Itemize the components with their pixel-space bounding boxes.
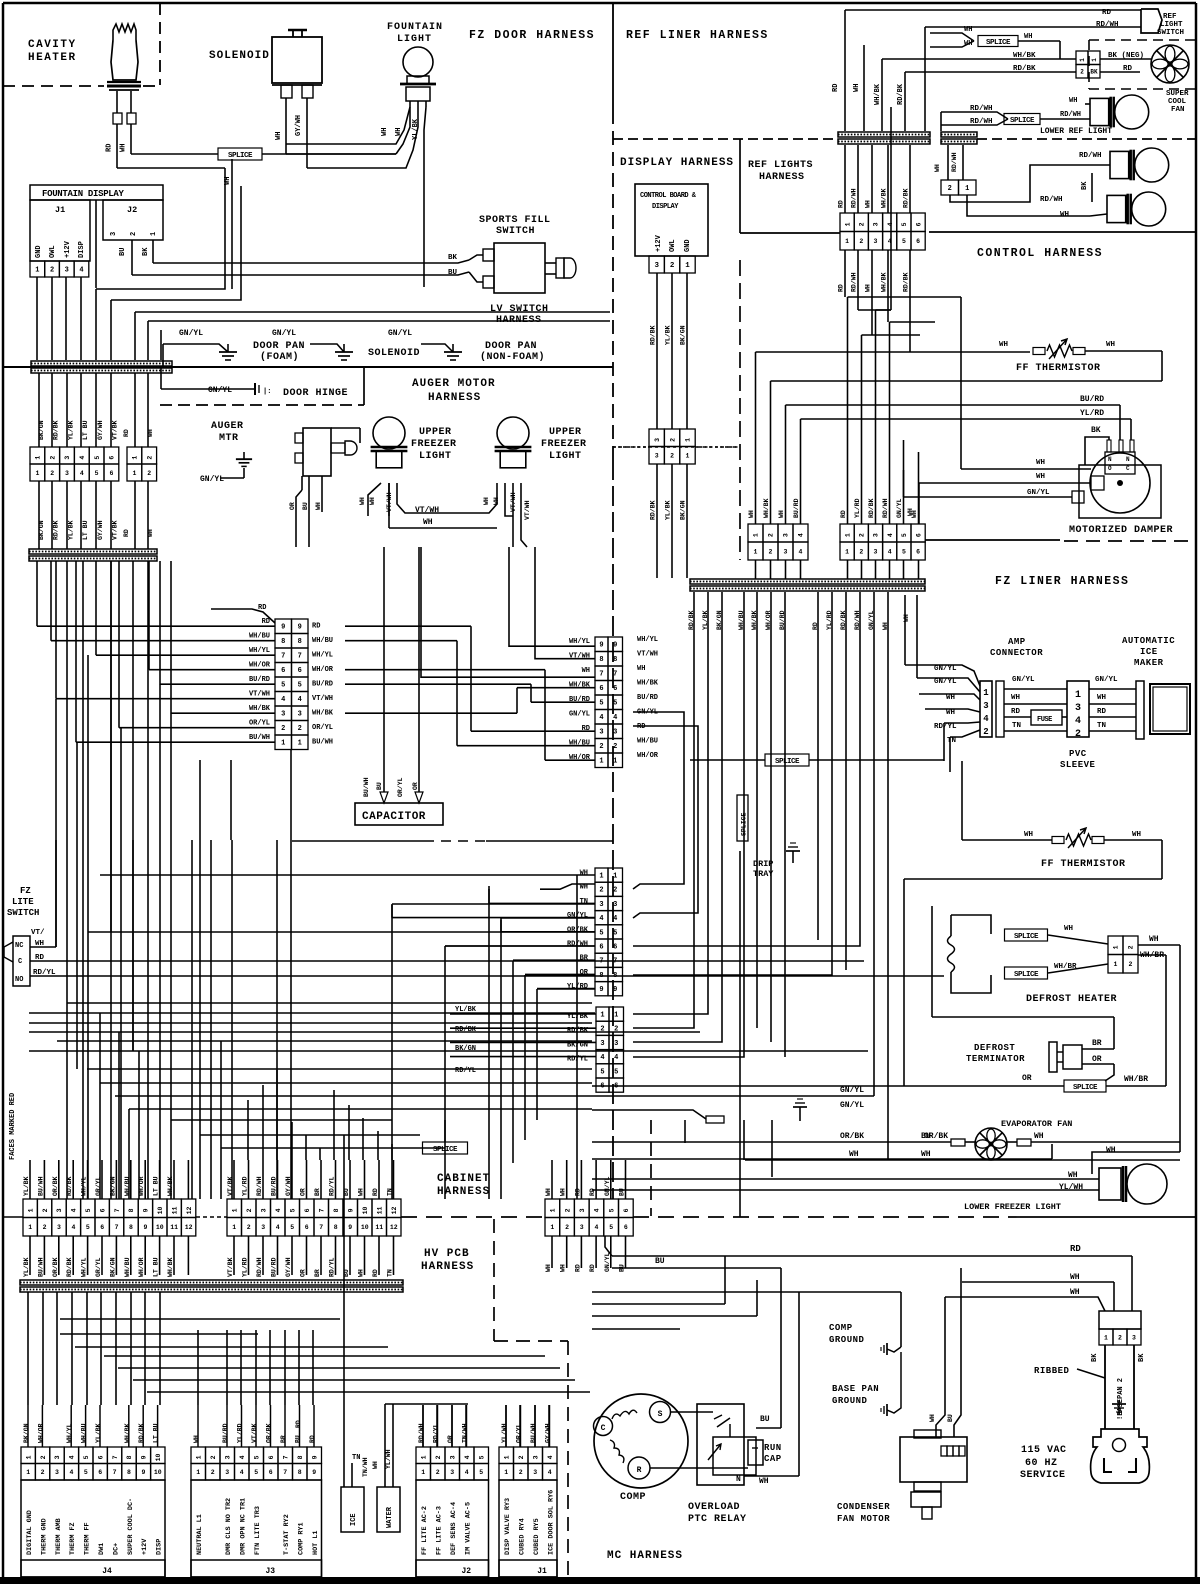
svg-text:5: 5 — [84, 1469, 88, 1476]
svg-text:WH/BK: WH/BK — [881, 272, 888, 292]
svg-text:OVERLOAD: OVERLOAD — [688, 1502, 740, 1513]
wires into amp connector left — [905, 665, 980, 686]
svg-text:N: N — [1126, 456, 1130, 463]
svg-text:2: 2 — [42, 1208, 49, 1212]
hv pcb mesh wires — [27, 1292, 29, 1405]
svg-text:OR: OR — [1022, 1074, 1032, 1083]
svg-text:OR/YL: OR/YL — [397, 777, 404, 797]
svg-text:S: S — [658, 1410, 663, 1419]
svg-text:THERM FF: THERM FF — [84, 1522, 92, 1555]
svg-text:5: 5 — [478, 1455, 485, 1459]
svg-text:5: 5 — [254, 1469, 258, 1476]
svg-text:1: 1 — [965, 185, 969, 193]
fountain light bulb — [403, 47, 433, 77]
svg-text:10: 10 — [155, 1453, 162, 1461]
svg-text:SPLICE: SPLICE — [741, 812, 748, 836]
svg-text:4: 4 — [599, 714, 603, 722]
svg-text:4: 4 — [599, 915, 603, 923]
connector C6 6pin single — [596, 1007, 609, 1021]
bar D verticals extension — [756, 900, 758, 1028]
svg-text:WH: WH — [929, 1414, 936, 1422]
svg-text:WH/BK: WH/BK — [249, 705, 271, 713]
wires to sports fill switch — [469, 255, 483, 260]
svg-text:WH: WH — [853, 84, 861, 92]
svg-text:RD/WH: RD/WH — [851, 272, 858, 292]
svg-text:BK/GN: BK/GN — [109, 1176, 116, 1196]
svg-text:FZ DOOR HARNESS: FZ DOOR HARNESS — [469, 29, 595, 42]
svg-text:4: 4 — [798, 533, 805, 537]
svg-text:8: 8 — [127, 1469, 131, 1476]
svg-text:BU/RD: BU/RD — [637, 694, 658, 702]
fz door harness bus bar A — [31, 361, 172, 366]
svg-text:3: 3 — [281, 711, 285, 719]
svg-text:GY/WH: GY/WH — [285, 1257, 292, 1277]
svg-text:BU/WH: BU/WH — [312, 739, 333, 747]
svg-text:LIGHT: LIGHT — [419, 451, 452, 462]
svg-text:2: 2 — [519, 1469, 523, 1476]
svg-text:2: 2 — [859, 238, 863, 245]
svg-text:WH/BU: WH/BU — [312, 637, 333, 645]
svg-text:4: 4 — [276, 1224, 280, 1231]
svg-text:SPORTS FILL: SPORTS FILL — [479, 215, 551, 226]
svg-text:1: 1 — [504, 1469, 508, 1476]
svg-text:RD: RD — [1070, 1244, 1081, 1254]
svg-text:RD/YL: RD/YL — [329, 1176, 336, 1196]
svg-text:SPLICE: SPLICE — [775, 758, 800, 766]
upper freezer light 2 — [497, 417, 529, 449]
svg-text:5: 5 — [901, 533, 908, 537]
svg-text:4: 4 — [79, 266, 83, 274]
defrost terminator — [1049, 1042, 1057, 1072]
svg-text:BK: BK — [1138, 1353, 1146, 1362]
svg-text:4: 4 — [594, 1208, 601, 1212]
svg-text:4: 4 — [79, 456, 86, 460]
connector C10 control 6pin — [840, 213, 854, 232]
svg-text:1: 1 — [685, 262, 690, 270]
svg-text:BR: BR — [580, 955, 589, 963]
svg-text:11: 11 — [376, 1206, 383, 1214]
svg-text:SPLICE: SPLICE — [228, 152, 253, 160]
svg-text:1: 1 — [844, 222, 851, 226]
svg-text:2: 2 — [43, 1224, 47, 1231]
extra mesh horizontals lower — [171, 1119, 392, 1121]
svg-text:RD/WH: RD/WH — [1060, 111, 1081, 119]
svg-text:2: 2 — [210, 1455, 217, 1459]
svg-text:OR/YL: OR/YL — [312, 724, 333, 732]
svg-text:RD/BK: RD/BK — [66, 1257, 73, 1277]
svg-text:ICE: ICE — [350, 1513, 358, 1526]
svg-text:WH: WH — [1070, 1288, 1080, 1297]
wires below C10 — [844, 250, 846, 297]
svg-text:VT/WH: VT/WH — [637, 651, 658, 659]
svg-text:DISPLAY: DISPLAY — [652, 203, 679, 211]
svg-text:RD: RD — [840, 510, 847, 518]
svg-text:RD/WH: RD/WH — [851, 188, 858, 208]
svg-text:6: 6 — [304, 1208, 311, 1212]
svg-text:1: 1 — [503, 1455, 510, 1459]
svg-text:6: 6 — [916, 548, 920, 555]
svg-text:11: 11 — [170, 1224, 178, 1231]
svg-text:WH: WH — [946, 694, 955, 702]
svg-text:3: 3 — [613, 901, 617, 909]
svg-text:UPPER: UPPER — [419, 427, 452, 438]
svg-text:NO: NO — [15, 976, 23, 984]
svg-text:GN/YL: GN/YL — [604, 1176, 611, 1196]
svg-text:SPLICE: SPLICE — [1073, 1084, 1098, 1092]
horizontal runs to right components — [756, 351, 1031, 353]
svg-text:OR/BK: OR/BK — [266, 1423, 273, 1443]
C17 wires below to bar E — [29, 1236, 31, 1275]
svg-text:TN: TN — [1097, 722, 1106, 730]
svg-text:WH: WH — [1132, 831, 1141, 839]
connector C9 6pin — [840, 524, 854, 542]
display harness divider — [613, 446, 737, 448]
svg-text:3: 3 — [54, 1455, 61, 1459]
svg-text:BU/WH: BU/WH — [363, 777, 370, 797]
svg-text:BU: BU — [119, 248, 127, 256]
svg-text:10: 10 — [154, 1469, 162, 1476]
splice S1 — [218, 148, 262, 160]
bk wire bulbs — [1091, 173, 1093, 202]
svg-text:O: O — [1108, 465, 1112, 472]
svg-text:9: 9 — [599, 986, 603, 994]
svg-text:2: 2 — [983, 727, 988, 737]
svg-text:RD: RD — [574, 1188, 581, 1196]
svg-text:5: 5 — [600, 1068, 604, 1076]
C19 wires below — [551, 1236, 553, 1268]
svg-text:8: 8 — [126, 1455, 133, 1459]
svg-text:WH/BK: WH/BK — [167, 1176, 174, 1196]
svg-text:WH/BU: WH/BU — [124, 1176, 131, 1196]
svg-text:5: 5 — [614, 1068, 618, 1076]
svg-text:2: 2 — [40, 1455, 47, 1459]
svg-text:OWL: OWL — [49, 245, 57, 258]
svg-text:5: 5 — [613, 700, 617, 708]
svg-text:WH/YL: WH/YL — [312, 652, 333, 660]
svg-text:WH: WH — [921, 1150, 931, 1159]
svg-text:FOUNTAIN DISPLAY: FOUNTAIN DISPLAY — [42, 189, 125, 199]
evap fan wires — [592, 1141, 951, 1143]
svg-text:7: 7 — [298, 653, 302, 661]
svg-text:6: 6 — [281, 667, 285, 675]
svg-text:3: 3 — [65, 266, 69, 274]
compressor wires — [670, 1411, 713, 1413]
wire J2-1 BK right — [153, 260, 469, 263]
connector C7 display harness 3pin — [649, 429, 664, 447]
svg-text:OR: OR — [300, 1269, 307, 1277]
svg-text:BU/RD: BU/RD — [312, 681, 333, 689]
svg-text:FAN MOTOR: FAN MOTOR — [837, 1514, 890, 1524]
svg-text:115 VAC: 115 VAC — [1021, 1445, 1067, 1456]
svg-text:4: 4 — [275, 1208, 282, 1212]
splice labels right mesh — [739, 851, 741, 1217]
svg-text:WH: WH — [147, 429, 154, 437]
svg-text:WH: WH — [1106, 341, 1115, 349]
svg-text:EVAPORATOR FAN: EVAPORATOR FAN — [1001, 1119, 1072, 1129]
svg-text:BU: BU — [376, 782, 383, 790]
svg-text:4: 4 — [69, 1455, 76, 1459]
J2 J1 wires verticals — [422, 1405, 424, 1447]
C18 wires above — [233, 1160, 235, 1199]
svg-text:4: 4 — [71, 1208, 78, 1212]
svg-text:6: 6 — [916, 238, 920, 245]
bk wire damper — [1085, 437, 1109, 465]
svg-text:LITE: LITE — [12, 897, 34, 907]
svg-text:GN/YL: GN/YL — [604, 1252, 611, 1272]
svg-text:DEFROST: DEFROST — [974, 1043, 1015, 1053]
svg-text:1: 1 — [614, 1012, 618, 1020]
connector C8 4pin — [748, 524, 763, 542]
svg-text:GN/YL: GN/YL — [1095, 676, 1118, 684]
wires above bus bar A — [95, 289, 97, 360]
svg-text:3: 3 — [654, 438, 661, 442]
svg-text:RD/WH: RD/WH — [951, 152, 958, 172]
svg-text:6: 6 — [915, 222, 922, 226]
svg-text:TERMINATOR: TERMINATOR — [966, 1054, 1025, 1064]
connector J4 block — [21, 1480, 165, 1577]
svg-text:WH: WH — [193, 1435, 200, 1443]
svg-text:BK: BK — [1091, 1353, 1099, 1362]
svg-text:!BASEPAN 2: !BASEPAN 2 — [1117, 1378, 1125, 1420]
svg-text:4: 4 — [465, 1469, 469, 1476]
svg-text:CAVITY: CAVITY — [28, 39, 77, 51]
svg-text:7: 7 — [599, 958, 603, 966]
svg-text:BU/WH: BU/WH — [530, 1423, 537, 1443]
svg-text:3: 3 — [1132, 1334, 1136, 1341]
water wire corner — [392, 1404, 394, 1447]
svg-text:FAN: FAN — [1171, 106, 1185, 114]
svg-text:WH: WH — [778, 510, 785, 518]
svg-text:BU: BU — [448, 269, 458, 277]
svg-text:WH: WH — [999, 341, 1008, 349]
svg-text:LT BU: LT BU — [82, 420, 89, 440]
svg-text:1: 1 — [196, 1469, 200, 1476]
svg-text:3: 3 — [873, 222, 880, 226]
svg-text:BU: BU — [295, 1435, 302, 1443]
ref liner harness divider — [613, 138, 838, 140]
svg-text:BK/GN: BK/GN — [23, 1423, 30, 1443]
svg-text:SERVICE: SERVICE — [1020, 1470, 1066, 1481]
svg-text:TRAY: TRAY — [753, 869, 774, 879]
svg-text:PTC RELAY: PTC RELAY — [688, 1514, 747, 1525]
svg-text:3: 3 — [654, 262, 659, 270]
svg-text:4: 4 — [887, 533, 894, 537]
svg-text:GN/YL: GN/YL — [569, 711, 590, 719]
svg-text:COMP: COMP — [829, 1323, 853, 1333]
svg-text:9: 9 — [311, 1455, 318, 1459]
svg-text:WH: WH — [1070, 1273, 1080, 1282]
svg-text:J1: J1 — [55, 205, 65, 215]
svg-text:WH/BK: WH/BK — [763, 498, 770, 518]
svg-text:WH: WH — [1036, 459, 1045, 467]
svg-text:WH: WH — [275, 132, 283, 140]
svg-text:9: 9 — [613, 642, 617, 650]
connector C2b 2pin — [127, 447, 142, 464]
svg-text:REF LIGHTS: REF LIGHTS — [748, 160, 813, 171]
svg-text:(FOAM): (FOAM) — [260, 351, 299, 363]
svg-text:C: C — [1126, 465, 1130, 472]
fz lite switch — [13, 936, 30, 986]
solenoid — [288, 29, 307, 31]
svg-text:OR/BK: OR/BK — [567, 926, 589, 934]
svg-text:RD/BK: RD/BK — [903, 272, 910, 292]
connector C3 9pin pair — [275, 619, 292, 634]
svg-text:WH/OR: WH/OR — [138, 1176, 145, 1196]
svg-text:T-STAT RY2: T-STAT RY2 — [283, 1514, 291, 1555]
svg-text:9: 9 — [281, 624, 285, 632]
svg-text:2: 2 — [599, 887, 603, 895]
bulb wires — [368, 483, 381, 516]
svg-text:1: 1 — [298, 740, 302, 748]
svg-text:2: 2 — [1080, 69, 1084, 76]
svg-text:GN/YL: GN/YL — [840, 1101, 864, 1110]
svg-text:J2: J2 — [127, 205, 137, 215]
svg-text:RD/BK: RD/BK — [650, 500, 657, 520]
svg-text:AUGER MOTOR: AUGER MOTOR — [412, 378, 496, 390]
svg-text:SPLICE: SPLICE — [1010, 117, 1035, 125]
svg-text:2: 2 — [670, 262, 675, 270]
wire J2-2 BU right — [132, 272, 469, 275]
svg-text:4: 4 — [983, 714, 989, 724]
svg-text:3: 3 — [874, 238, 878, 245]
svg-text:3: 3 — [449, 1455, 456, 1459]
svg-text:4: 4 — [547, 1455, 554, 1459]
svg-text:YL/RD: YL/RD — [237, 1423, 244, 1443]
svg-text:YL/BK: YL/BK — [665, 325, 672, 345]
svg-text:RD/YL: RD/YL — [934, 723, 957, 731]
svg-text:4: 4 — [799, 548, 803, 555]
svg-text:9: 9 — [143, 1224, 147, 1231]
svg-text:GN/YL: GN/YL — [840, 1086, 864, 1095]
svg-text:LT BU: LT BU — [153, 1257, 160, 1277]
svg-text:ICE DOOR SOL RY6: ICE DOOR SOL RY6 — [548, 1490, 556, 1555]
svg-text:RD/YL: RD/YL — [433, 1423, 440, 1443]
svg-text:LOWER FREEZER LIGHT: LOWER FREEZER LIGHT — [964, 1202, 1061, 1212]
wires C2 to bus bar B — [38, 481, 40, 549]
svg-text:BU/RD: BU/RD — [249, 676, 270, 684]
svg-text:5: 5 — [902, 548, 906, 555]
svg-text:BR: BR — [314, 1188, 321, 1196]
svg-text:2: 2 — [599, 743, 603, 751]
svg-text:RD/BK: RD/BK — [868, 498, 875, 518]
svg-text:+12V: +12V — [141, 1538, 149, 1555]
svg-text:8: 8 — [599, 656, 603, 664]
switch wires — [30, 946, 56, 948]
svg-text:WH: WH — [1024, 831, 1033, 839]
svg-text:BK/GN: BK/GN — [38, 420, 45, 440]
svg-text:BU: BU — [619, 1188, 626, 1196]
svg-text:1: 1 — [1113, 945, 1120, 949]
wire solenoid WH y144 — [286, 107, 410, 144]
svg-text:3: 3 — [655, 453, 659, 460]
svg-text:GY/WH: GY/WH — [97, 420, 104, 440]
svg-text:PVC: PVC — [1069, 749, 1087, 759]
svg-text:WH/BU: WH/BU — [249, 633, 270, 641]
svg-text:2: 2 — [769, 548, 773, 555]
pvc sleeve connector — [1067, 681, 1089, 737]
svg-text:2: 2 — [49, 456, 56, 460]
svg-text:3: 3 — [873, 533, 880, 537]
svg-text:WH/OR: WH/OR — [37, 1423, 44, 1443]
svg-text:FF THERMISTOR: FF THERMISTOR — [1041, 859, 1126, 870]
svg-text:2: 2 — [1128, 945, 1135, 949]
svg-text:TN: TN — [387, 1269, 394, 1277]
svg-text:VT/: VT/ — [31, 929, 45, 937]
svg-text:+12V: +12V — [655, 234, 663, 252]
ref lights harness boundary — [739, 139, 741, 233]
svg-text:7: 7 — [282, 1455, 289, 1459]
svg-text:GN/YL: GN/YL — [208, 386, 232, 395]
J3 wires verticals — [197, 1330, 199, 1405]
svg-text:5: 5 — [85, 1208, 92, 1212]
svg-text:UPPER: UPPER — [549, 427, 582, 438]
svg-text:GN/YL: GN/YL — [200, 475, 224, 484]
wire corners above bar A — [96, 168, 225, 289]
svg-text:LIGHT: LIGHT — [1160, 21, 1183, 29]
basepan connector — [1099, 1311, 1141, 1329]
svg-text:RIBBED: RIBBED — [1034, 1366, 1070, 1376]
svg-text:BU: BU — [921, 1132, 931, 1141]
cavity heater dashed boundary — [159, 3, 161, 85]
wires bar B into mesh to C3 — [36, 561, 38, 626]
mesh wires between C3 and C4 — [345, 625, 471, 627]
svg-text:9: 9 — [141, 1455, 148, 1459]
terminator wires — [1082, 1048, 1114, 1050]
svg-text:CONDENSER: CONDENSER — [837, 1502, 890, 1512]
svg-text:VT/BK: VT/BK — [112, 420, 119, 440]
svg-text:7: 7 — [115, 1224, 119, 1231]
svg-text:TN/WH: TN/WH — [362, 1457, 369, 1477]
left band extra verticals — [55, 699, 57, 947]
svg-text:DMR CLS NO TR2: DMR CLS NO TR2 — [225, 1498, 233, 1555]
svg-text:RD/BK: RD/BK — [53, 520, 60, 540]
splice S9 — [423, 1142, 468, 1154]
connector J1 fountain display — [30, 200, 90, 261]
amp connector body — [980, 681, 992, 737]
svg-text:2: 2 — [565, 1224, 569, 1231]
svg-text:1: 1 — [983, 688, 989, 698]
svg-text:OR/YL: OR/YL — [516, 1423, 523, 1443]
svg-text:WH: WH — [748, 510, 755, 518]
control harness divider — [929, 231, 1196, 233]
svg-text:1: 1 — [1075, 690, 1081, 701]
connector C4 9pin pair — [595, 637, 608, 652]
svg-text:YL/BK: YL/BK — [455, 1006, 477, 1014]
svg-text:8: 8 — [599, 972, 603, 980]
svg-text:|:: |: — [263, 388, 271, 396]
svg-text:WH/BR: WH/BR — [1124, 1075, 1148, 1084]
bu wire from cabinet connector — [605, 1236, 612, 1256]
svg-text:RD: RD — [1011, 708, 1021, 716]
svg-text:4: 4 — [69, 1469, 73, 1476]
svg-text:6: 6 — [100, 1224, 104, 1231]
splice S5 vertical — [737, 795, 748, 841]
svg-text:BR: BR — [1092, 1039, 1102, 1048]
svg-text:SUPER: SUPER — [1166, 90, 1189, 98]
svg-text:WH/BK: WH/BK — [124, 1423, 131, 1443]
svg-text:RD/BK: RD/BK — [455, 1026, 477, 1034]
wires C8 C9 down to bar D — [755, 560, 757, 579]
svg-text:WH: WH — [358, 1269, 365, 1277]
defrost heater coil — [950, 915, 952, 936]
wire runs lower right — [684, 1120, 686, 1143]
svg-text:THERM FZ: THERM FZ — [69, 1522, 77, 1555]
svg-text:6: 6 — [623, 1208, 630, 1212]
svg-text:10: 10 — [156, 1224, 164, 1231]
svg-text:5: 5 — [253, 1455, 260, 1459]
svg-text:6: 6 — [599, 685, 603, 693]
svg-text:4: 4 — [240, 1469, 244, 1476]
